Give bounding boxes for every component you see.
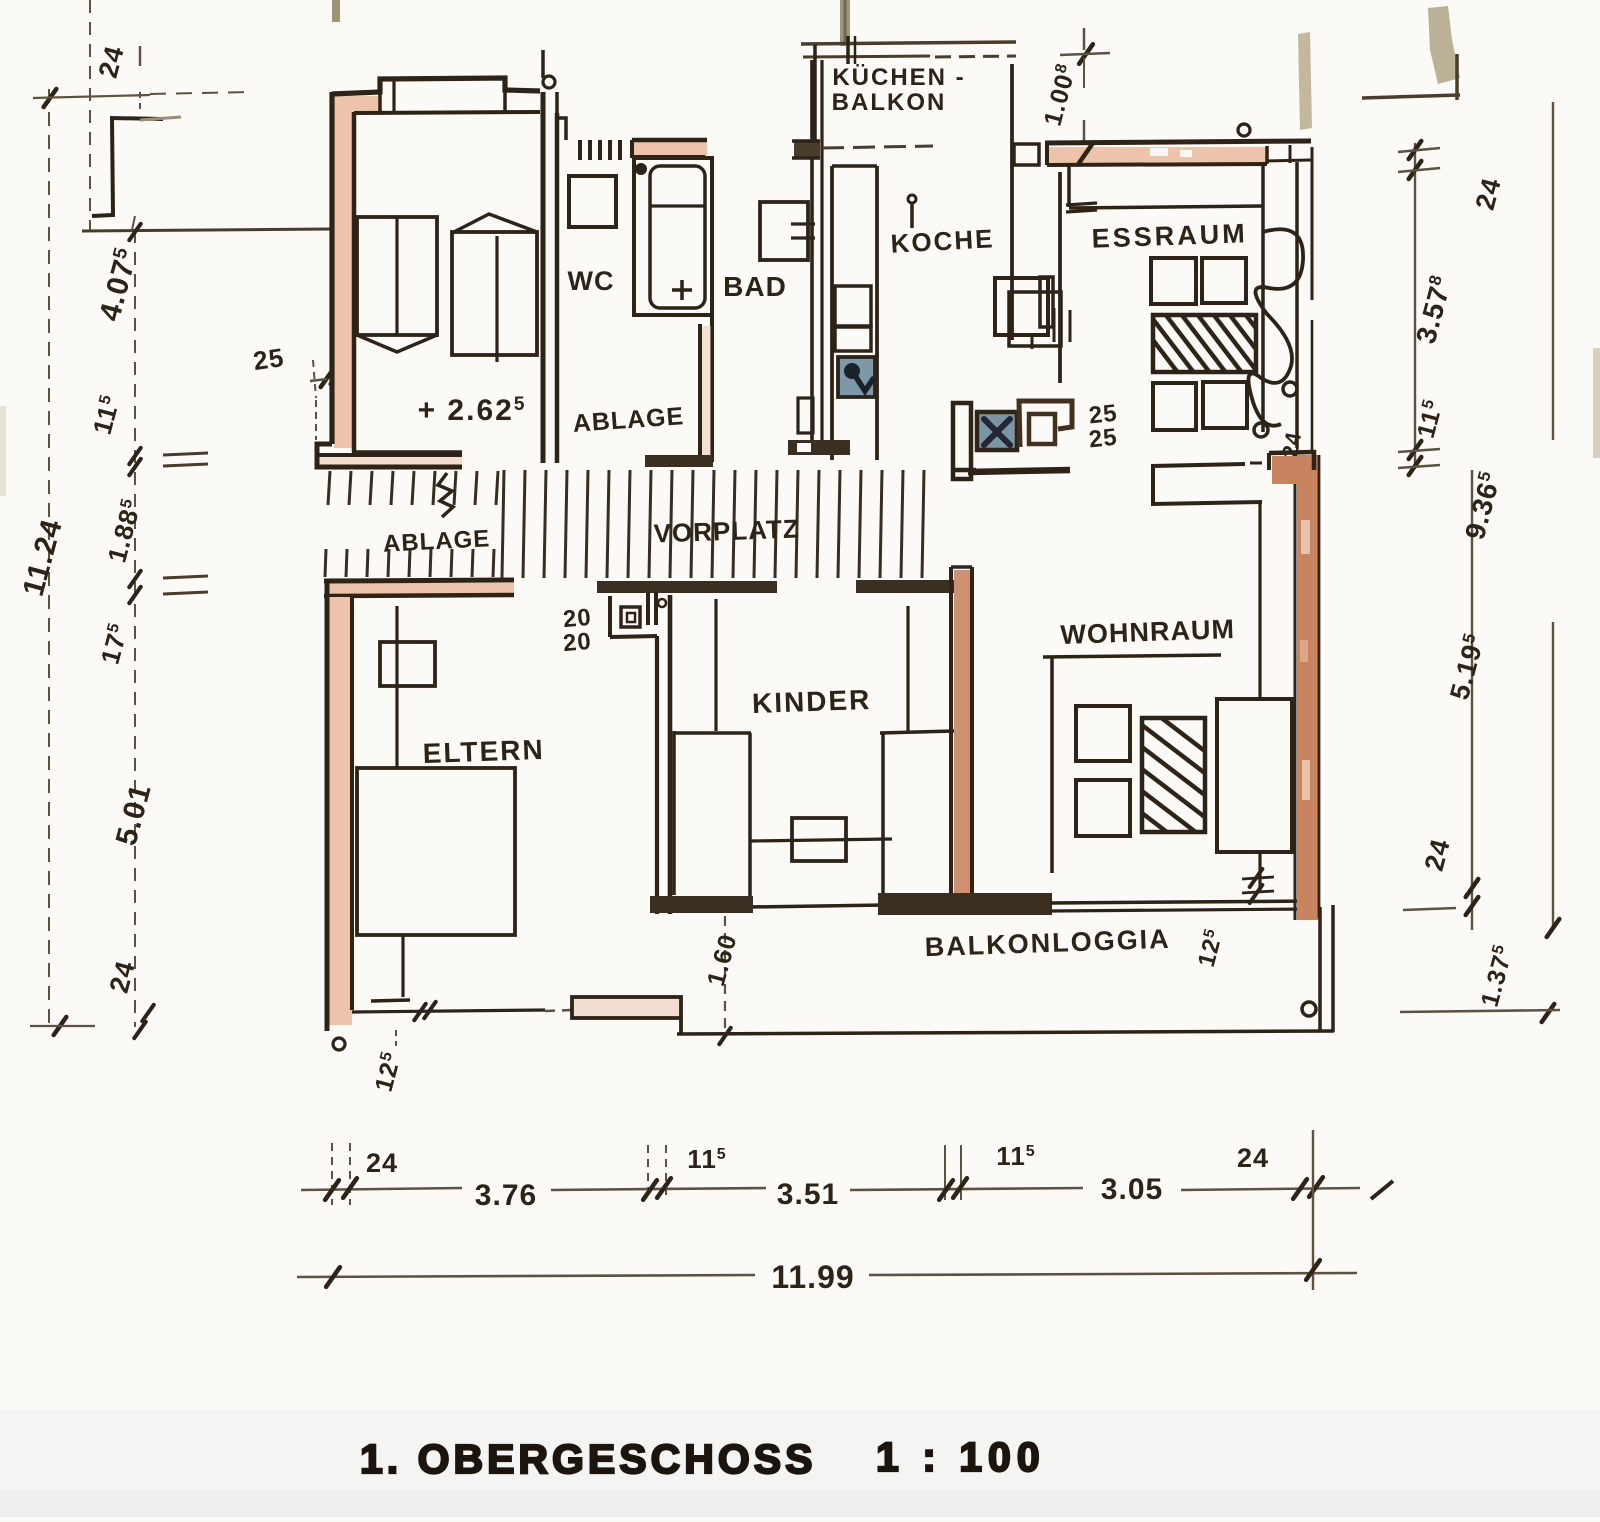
svg-text:25: 25: [251, 342, 286, 376]
svg-text:ELTERN: ELTERN: [422, 734, 545, 769]
svg-text:WC: WC: [568, 266, 615, 296]
svg-text:KÜCHEN -: KÜCHEN -: [832, 64, 965, 91]
svg-text:ESSRAUM: ESSRAUM: [1091, 218, 1248, 253]
svg-text:+ 2.625: + 2.625: [418, 394, 527, 427]
svg-text:KINDER: KINDER: [751, 684, 871, 719]
svg-text:WOHNRAUM: WOHNRAUM: [1060, 614, 1235, 650]
svg-text:1 : 100: 1 : 100: [876, 1434, 1046, 1480]
svg-text:VORPLATZ: VORPLATZ: [653, 513, 800, 548]
svg-text:11.99: 11.99: [771, 1259, 854, 1295]
svg-text:BALKON: BALKON: [832, 89, 947, 116]
svg-text:BAD: BAD: [723, 271, 787, 302]
svg-text:KOCHE: KOCHE: [890, 223, 995, 258]
svg-text:3.51: 3.51: [777, 1178, 839, 1211]
svg-text:20: 20: [562, 628, 593, 657]
svg-text:1. OBERGESCHOSS: 1. OBERGESCHOSS: [360, 1436, 816, 1482]
svg-text:24: 24: [1237, 1143, 1269, 1173]
svg-text:ABLAGE: ABLAGE: [382, 525, 491, 558]
svg-text:3.76: 3.76: [475, 1179, 537, 1212]
svg-text:24: 24: [366, 1148, 398, 1178]
svg-text:25: 25: [1088, 424, 1119, 454]
svg-text:3.05: 3.05: [1101, 1173, 1163, 1206]
